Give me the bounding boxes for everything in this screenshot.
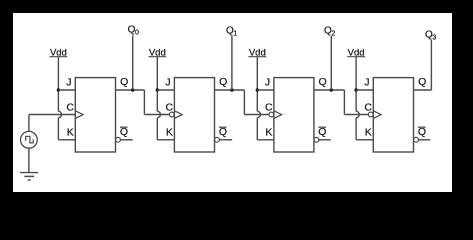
clock edge triangle U3 bbox=[274, 111, 282, 119]
wire Qbar4 stub bbox=[418, 139, 430, 141]
Vdd supply (stage 4) bbox=[347, 48, 365, 59]
wire J1 input bbox=[58, 89, 75, 91]
svg-text:Q: Q bbox=[219, 76, 227, 88]
wire Q3 tap bbox=[430, 40, 432, 90]
wire clock to ground bbox=[28, 148, 30, 172]
wire Qbar1 stub bbox=[120, 139, 132, 141]
svg-text:J: J bbox=[165, 77, 170, 89]
wire K2 input bbox=[157, 139, 174, 141]
wire Q1 tap bbox=[231, 36, 233, 90]
clock edge triangle U2 bbox=[174, 111, 182, 119]
JK flip-flop U3 body bbox=[274, 78, 314, 152]
wire K4 input bbox=[356, 139, 373, 141]
pin label Qbar2 bbox=[219, 126, 227, 138]
wire Qbar3 stub bbox=[319, 139, 331, 141]
wire Q0 to C2 bbox=[144, 90, 169, 115]
wire Q1 to C3 bbox=[244, 90, 269, 115]
Vdd supply (stage 2) bbox=[148, 48, 166, 59]
pin label Qbar3 bbox=[318, 126, 326, 138]
inverted output bubble Qbar1 bbox=[116, 137, 121, 142]
node Q0 label bbox=[128, 25, 139, 37]
wire Q2 tap bbox=[330, 36, 332, 90]
junction dot Q1 tap bbox=[230, 88, 233, 91]
pin label Qbar4 bbox=[418, 126, 426, 138]
svg-text:0: 0 bbox=[135, 29, 139, 36]
clock edge triangle U4 bbox=[373, 111, 381, 119]
wire J2 input bbox=[157, 89, 174, 91]
wire clock to C1 bbox=[29, 115, 75, 132]
inverting clock bubble C4 bbox=[368, 112, 373, 117]
inverting clock bubble C2 bbox=[169, 112, 174, 117]
wire Vdd to J4/K4 (with hop over C wire) bbox=[356, 57, 359, 140]
wire Vdd to J3/K3 (with hop over C wire) bbox=[257, 57, 260, 140]
wire Q4 output to Q3 node bbox=[414, 89, 432, 91]
svg-text:J: J bbox=[364, 77, 369, 89]
svg-text:Q: Q bbox=[120, 76, 128, 88]
Vdd supply (stage 1) bbox=[50, 48, 68, 59]
svg-text:3: 3 bbox=[432, 34, 436, 41]
junction dot Vdd/J1 bbox=[57, 88, 60, 91]
svg-text:K: K bbox=[365, 126, 372, 138]
junction dot Vdd/J2 bbox=[156, 88, 159, 91]
inverted output bubble Qbar2 bbox=[215, 137, 220, 142]
ground bbox=[20, 173, 38, 180]
pin label Qbar1 bbox=[120, 126, 128, 138]
wire Q0 tap bbox=[132, 35, 134, 90]
svg-text:K: K bbox=[67, 126, 74, 138]
inverting clock bubble C3 bbox=[269, 112, 274, 117]
wire Q2 output bbox=[215, 89, 245, 91]
junction dot Vdd/J3 bbox=[256, 88, 259, 91]
JK flip-flop U4 body bbox=[373, 78, 413, 152]
svg-text:J: J bbox=[265, 77, 270, 89]
Vdd supply (stage 3) bbox=[248, 48, 266, 59]
wire Vdd to J1/K1 (with hop over C wire) bbox=[58, 57, 61, 140]
svg-text:J: J bbox=[66, 77, 71, 89]
svg-text:Q: Q bbox=[319, 76, 327, 88]
JK flip-flop U2 body bbox=[174, 78, 214, 152]
node Q1 label bbox=[226, 26, 237, 38]
wire Q2 to C4 bbox=[344, 90, 368, 115]
svg-text:K: K bbox=[265, 126, 272, 138]
inverted output bubble Qbar3 bbox=[314, 137, 319, 142]
svg-text:K: K bbox=[166, 126, 173, 138]
clock source V1 bbox=[21, 131, 38, 148]
JK flip-flop U1 body bbox=[75, 78, 115, 152]
svg-text:1: 1 bbox=[233, 30, 237, 37]
wire K1 input bbox=[58, 139, 75, 141]
svg-text:2: 2 bbox=[331, 30, 335, 37]
wire Qbar2 stub bbox=[219, 139, 232, 141]
node Q3 label bbox=[425, 30, 436, 42]
junction dot Q0 tap bbox=[131, 88, 134, 91]
wire Q3 output bbox=[314, 89, 345, 91]
wire Vdd to J2/K2 (with hop over C wire) bbox=[157, 57, 160, 140]
wire K3 input bbox=[257, 139, 274, 141]
clock edge triangle U1 bbox=[75, 111, 83, 119]
wire J4 input bbox=[356, 89, 373, 91]
junction dot Vdd/J4 bbox=[354, 88, 357, 91]
node Q2 label bbox=[324, 26, 335, 38]
wire Q1 output bbox=[116, 89, 145, 91]
svg-text:Q: Q bbox=[418, 76, 426, 88]
svg-text:C: C bbox=[66, 102, 74, 114]
inverted output bubble Qbar4 bbox=[414, 137, 419, 142]
junction dot Q2 tap bbox=[330, 88, 333, 91]
wire J3 input bbox=[257, 89, 274, 91]
